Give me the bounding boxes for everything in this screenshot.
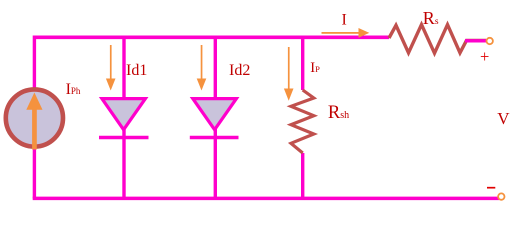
resistor Rsh zigzag <box>291 90 314 153</box>
wire Rsh branch upper <box>301 37 304 90</box>
diode D1 <box>99 99 149 138</box>
wire diode branch 1 <box>122 37 125 198</box>
terminal + node circle <box>487 38 493 44</box>
label minus <box>487 187 495 189</box>
arrow Id2 (down) <box>197 45 207 91</box>
resistor Rs zigzag <box>389 25 486 54</box>
wire Rsh branch lower <box>301 153 304 198</box>
wire stub to + terminal <box>465 39 486 42</box>
wire bottom rail <box>33 197 499 201</box>
current source IPh circle <box>6 89 63 146</box>
diode D2 <box>190 99 239 138</box>
svg-text:+: + <box>480 47 489 66</box>
arrow I (right) <box>322 28 370 38</box>
wire top rail <box>33 35 389 39</box>
svg-text:V: V <box>497 109 510 128</box>
svg-text:Id2: Id2 <box>229 62 250 79</box>
svg-text:I: I <box>342 12 347 29</box>
current source arrow (up) <box>26 93 42 150</box>
terminal - node circle <box>498 193 504 199</box>
wire diode branch 2 <box>214 37 217 198</box>
svg-text:Id1: Id1 <box>126 62 147 79</box>
arrow IP (down) <box>284 47 294 101</box>
arrow Id1 (down) <box>106 45 116 91</box>
wire left rail <box>33 36 36 199</box>
